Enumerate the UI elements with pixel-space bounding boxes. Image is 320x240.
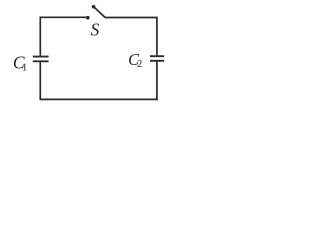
svg-text:2: 2 <box>137 59 142 70</box>
svg-text:1: 1 <box>22 62 28 74</box>
svg-text:S: S <box>91 20 100 40</box>
